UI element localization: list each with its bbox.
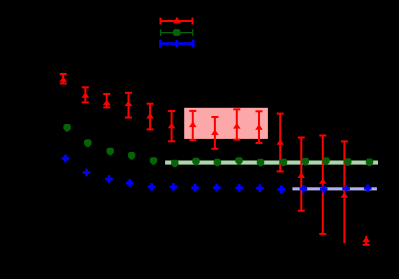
blue point 7 — [213, 184, 221, 192]
green marker series — [63, 124, 373, 167]
red point 9 — [255, 111, 263, 143]
blue point 8 — [235, 184, 243, 192]
red point 8 — [233, 109, 241, 139]
blue point 2 — [105, 175, 113, 183]
green point 11 — [302, 158, 309, 166]
green point 10 — [280, 159, 287, 167]
blue point 6 — [191, 184, 199, 192]
green point 3 — [128, 152, 135, 160]
red point 10 — [276, 114, 284, 172]
blue point 12 — [320, 185, 328, 193]
red point 11 — [298, 138, 306, 211]
red errorbar series — [59, 74, 370, 245]
green fit band — [165, 161, 378, 165]
green point 2 — [107, 148, 114, 156]
red point 6 — [189, 111, 197, 140]
green point 5 — [171, 160, 178, 168]
green point 8 — [235, 157, 242, 165]
red point 12 — [319, 136, 327, 234]
legend green entry — [161, 29, 193, 36]
green point 14 — [366, 159, 373, 167]
red point 0 — [59, 74, 67, 84]
blue point 10 — [278, 186, 286, 194]
green point 7 — [214, 159, 221, 167]
blue point 13 — [342, 185, 350, 193]
green point 12 — [322, 157, 329, 165]
red point 3 — [125, 93, 133, 118]
blue point 1 — [83, 169, 91, 177]
green point 4 — [150, 157, 157, 165]
red point 4 — [146, 104, 154, 130]
blue point 5 — [170, 183, 178, 191]
blue point 11 — [300, 185, 308, 193]
red point 5 — [168, 111, 176, 141]
pink fit band (red plateau box) — [184, 108, 268, 139]
blue point 14 — [364, 185, 372, 193]
blue fit band — [292, 187, 377, 190]
green point 9 — [257, 159, 264, 167]
blue point 0 — [62, 155, 70, 163]
red point 14 — [362, 236, 370, 245]
blue point 3 — [126, 179, 134, 187]
red point 2 — [103, 94, 111, 107]
red point 1 — [82, 87, 90, 102]
green point 6 — [192, 158, 199, 166]
green point 13 — [344, 158, 351, 166]
blue point 9 — [256, 184, 264, 192]
blue plus-marker series — [62, 155, 372, 193]
blue point 4 — [148, 183, 156, 191]
legend blue entry — [160, 40, 193, 48]
green point 0 — [63, 124, 70, 132]
red point 13 — [341, 141, 349, 243]
green point 1 — [84, 139, 91, 147]
red point 7 — [211, 117, 219, 149]
legend red entry — [161, 17, 193, 25]
